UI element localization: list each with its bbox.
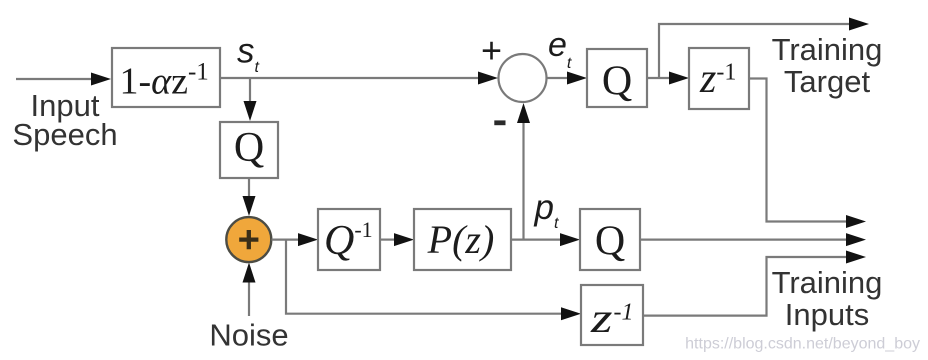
svg-text:https://blog.csdn.net/beyond_b: https://blog.csdn.net/beyond_boy <box>685 336 920 353</box>
block Q inverse (inverse quantizer) <box>318 209 380 270</box>
wire input speech <box>16 78 93 80</box>
summing node S1 (subtractor circle) <box>481 30 547 126</box>
arrowhead into P(z) <box>394 233 414 246</box>
arrowhead training input 3 <box>846 251 866 264</box>
arrowhead into noise adder <box>243 196 256 216</box>
svg-text:Target: Target <box>784 64 871 99</box>
wire summing node to Q3, node e_t <box>547 77 569 79</box>
arrowhead into Q inverse <box>298 233 318 246</box>
wire noise input <box>248 281 250 316</box>
label Training Target <box>772 32 883 99</box>
svg-text:Noise: Noise <box>209 318 288 353</box>
arrowhead into summing node (plus, from s_t) <box>478 72 498 85</box>
wire Q1 to noise adder <box>248 178 250 199</box>
arrowhead into Q3 <box>567 72 587 85</box>
arrowhead into bottom delay <box>561 307 581 320</box>
arrowhead into Q2 <box>560 233 580 246</box>
svg-text:Inputs: Inputs <box>785 297 869 332</box>
wire adder A1 to Q inverse <box>272 239 300 241</box>
svg-text:Training: Training <box>772 265 883 300</box>
block Q2 (quantizer, prediction) <box>580 209 640 270</box>
svg-text:Training: Training <box>772 32 883 67</box>
wire s_t: block F1 to summing node <box>220 77 480 79</box>
wire s_t branch down to quantizer Q1 <box>249 78 251 104</box>
arrowhead into top delay <box>669 72 689 85</box>
arrowhead into Q1 <box>244 101 257 121</box>
arrowhead training input 1 <box>846 215 866 228</box>
block P(z) (predictor) <box>414 209 511 270</box>
wire Q3 output to delay z^-1 top <box>647 77 670 79</box>
arrowhead into summing node (minus) <box>517 103 530 123</box>
wire branch down from adder output to delay z^-1 bottom <box>286 240 562 314</box>
block F1: 1-alpha*z^-1 <box>112 48 220 107</box>
wire delay D1 to training input 1 <box>749 79 847 222</box>
block D1: delay z^-1 top <box>689 48 749 109</box>
svg-text:Q: Q <box>602 59 632 105</box>
wire P(z) to quantizer Q2, node p_t <box>511 239 561 241</box>
arrowhead training input 2 <box>846 233 866 246</box>
svg-text:+: + <box>481 30 502 71</box>
wire delay D2 to training input 3 <box>643 257 847 316</box>
svg-text:Speech: Speech <box>12 117 117 152</box>
arrowhead noise into adder A1 <box>243 263 256 283</box>
wire Q inverse to P(z) <box>380 239 395 241</box>
wire p_t branch up to summing node minus input <box>522 120 524 240</box>
block D2: delay z^-1 bottom <box>581 285 643 345</box>
wire Q2 to training input 2 <box>640 239 847 241</box>
arrowhead training target <box>849 18 869 31</box>
arrowhead into 1-alpha-z block <box>91 73 111 86</box>
svg-text:P(z): P(z) <box>427 217 495 262</box>
svg-text:Q: Q <box>234 125 264 171</box>
block Q3 (quantizer, error) <box>587 49 647 107</box>
block Q1 (quantizer) <box>220 122 278 178</box>
adder A1 (noise summing node, orange) <box>226 217 271 262</box>
label Input Speech <box>12 88 117 152</box>
wire branch up to training target arrow <box>659 24 850 78</box>
label Training Inputs <box>772 265 883 332</box>
svg-text:Q: Q <box>595 219 625 265</box>
